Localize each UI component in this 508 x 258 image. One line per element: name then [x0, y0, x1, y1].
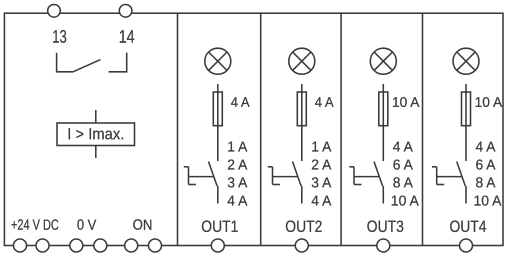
wire OUT1 below switch — [217, 186, 219, 204]
rating OUT1 step 4 A — [227, 194, 247, 210]
channel divider 1 — [177, 13, 179, 245]
current monitor block I > Imax. — [57, 123, 135, 146]
channel divider 4 — [422, 13, 424, 245]
rating OUT2 step 3 A — [311, 175, 331, 191]
label OUT3 — [367, 218, 404, 236]
fuse OUT1 value 4 A — [231, 94, 251, 110]
rating OUT4 step 8 A — [475, 175, 495, 191]
label 14 — [119, 27, 135, 47]
switch OUT1 actuator link — [189, 176, 214, 178]
rating OUT4 step 10 A — [473, 194, 501, 210]
svg-text:6 A: 6 A — [393, 158, 413, 174]
0 V terminal b — [94, 239, 107, 252]
svg-text:ON: ON — [133, 218, 153, 234]
terminal OUT1 — [211, 239, 224, 252]
svg-text:1 A: 1 A — [311, 140, 331, 156]
svg-text:+24 V DC: +24 V DC — [11, 218, 59, 234]
rating OUT2 step 1 A — [311, 140, 331, 156]
switch OUT3 actuator link — [354, 176, 379, 178]
svg-text:3 A: 3 A — [311, 175, 331, 191]
svg-text:10 A: 10 A — [473, 194, 501, 210]
switch OUT2 actuator link — [273, 176, 298, 178]
lamp OUT3 indicator — [370, 48, 396, 74]
rating OUT3 step 10 A — [391, 194, 419, 210]
label 13 — [52, 27, 67, 47]
switch OUT3 latching device — [349, 167, 361, 185]
ON terminal b — [149, 239, 162, 252]
fuse OUT4 — [462, 92, 471, 126]
terminal 13 — [48, 5, 61, 18]
rating OUT1 step 1 A — [227, 140, 247, 156]
rating OUT4 step 6 A — [475, 158, 495, 174]
switch OUT1 latching device — [184, 167, 196, 185]
fuse OUT3 — [379, 92, 388, 126]
terminal 14 — [119, 5, 132, 18]
contact 13-14 blade — [73, 60, 101, 72]
switch OUT2 blade — [293, 162, 302, 187]
wire OUT2 through fuse — [301, 84, 303, 161]
switch OUT2 latching device — [268, 167, 280, 185]
label ON — [133, 218, 153, 234]
rating OUT2 step 2 A — [311, 158, 331, 174]
rating OUT4 step 4 A — [475, 140, 495, 156]
terminal OUT3 — [377, 239, 390, 252]
switch OUT4 actuator link — [437, 176, 462, 178]
switch OUT4 blade — [457, 162, 466, 187]
svg-text:14: 14 — [119, 27, 135, 47]
wire out of current monitor — [95, 146, 97, 159]
rating OUT3 step 6 A — [393, 158, 413, 174]
svg-text:10 A: 10 A — [391, 194, 419, 210]
svg-text:OUT1: OUT1 — [201, 218, 238, 236]
fuse OUT3 value 10 A — [392, 94, 420, 110]
switch OUT3 blade — [374, 162, 383, 187]
rating OUT3 step 4 A — [393, 140, 413, 156]
ON terminal a — [125, 239, 138, 252]
svg-text:4 A: 4 A — [231, 94, 251, 110]
svg-text:OUT2: OUT2 — [285, 218, 322, 236]
wire OUT1 through fuse — [217, 84, 219, 161]
svg-text:4 A: 4 A — [475, 140, 495, 156]
svg-text:10 A: 10 A — [475, 94, 503, 110]
terminal OUT4 — [460, 239, 473, 252]
wire into current monitor — [95, 110, 97, 123]
wire OUT2 below switch — [301, 186, 303, 204]
+24 V DC terminal a — [14, 239, 27, 252]
svg-text:OUT4: OUT4 — [449, 218, 486, 236]
label OUT1 — [201, 218, 238, 236]
rating OUT2 step 4 A — [311, 194, 331, 210]
label 0 V — [77, 218, 97, 234]
wire OUT4 below switch — [465, 186, 467, 204]
svg-text:4 A: 4 A — [393, 140, 413, 156]
fuse OUT4 value 10 A — [475, 94, 503, 110]
label OUT2 — [285, 218, 322, 236]
svg-text:OUT3: OUT3 — [367, 218, 404, 236]
wire OUT4 through fuse — [465, 84, 467, 161]
svg-text:10 A: 10 A — [392, 94, 420, 110]
svg-text:8 A: 8 A — [393, 175, 413, 191]
fuse OUT2 — [297, 92, 306, 126]
svg-text:6 A: 6 A — [475, 158, 495, 174]
svg-text:13: 13 — [52, 27, 67, 47]
svg-text:4 A: 4 A — [315, 94, 335, 110]
rating OUT1 step 3 A — [227, 175, 247, 191]
svg-text:1 A: 1 A — [227, 140, 247, 156]
wire OUT3 through fuse — [382, 84, 384, 161]
channel divider 3 — [340, 13, 342, 245]
lamp OUT2 indicator — [289, 48, 315, 74]
svg-text:3 A: 3 A — [227, 175, 247, 191]
svg-text:I > Imax.: I > Imax. — [67, 126, 124, 143]
terminal OUT2 — [295, 239, 308, 252]
0 V terminal a — [70, 239, 83, 252]
svg-text:2 A: 2 A — [227, 158, 247, 174]
rating OUT1 step 2 A — [227, 158, 247, 174]
svg-text:4 A: 4 A — [311, 194, 331, 210]
lamp OUT1 indicator — [205, 48, 231, 74]
lamp OUT4 indicator — [453, 48, 479, 74]
svg-text:8 A: 8 A — [475, 175, 495, 191]
wire OUT3 below switch — [382, 186, 384, 204]
label OUT4 — [449, 218, 486, 236]
fuse OUT2 value 4 A — [315, 94, 335, 110]
svg-text:2 A: 2 A — [311, 158, 331, 174]
switch OUT1 blade — [209, 162, 218, 187]
label +24 V DC — [11, 218, 59, 234]
channel divider 2 — [260, 13, 262, 245]
svg-text:4 A: 4 A — [227, 194, 247, 210]
wire terminal-14 lead — [109, 53, 127, 72]
switch OUT4 latching device — [432, 167, 444, 185]
+24 V DC terminal b — [36, 239, 49, 252]
wire terminal-13 lead — [57, 53, 73, 72]
svg-text:0 V: 0 V — [77, 218, 97, 234]
rating OUT3 step 8 A — [393, 175, 413, 191]
fuse OUT1 — [213, 92, 222, 126]
